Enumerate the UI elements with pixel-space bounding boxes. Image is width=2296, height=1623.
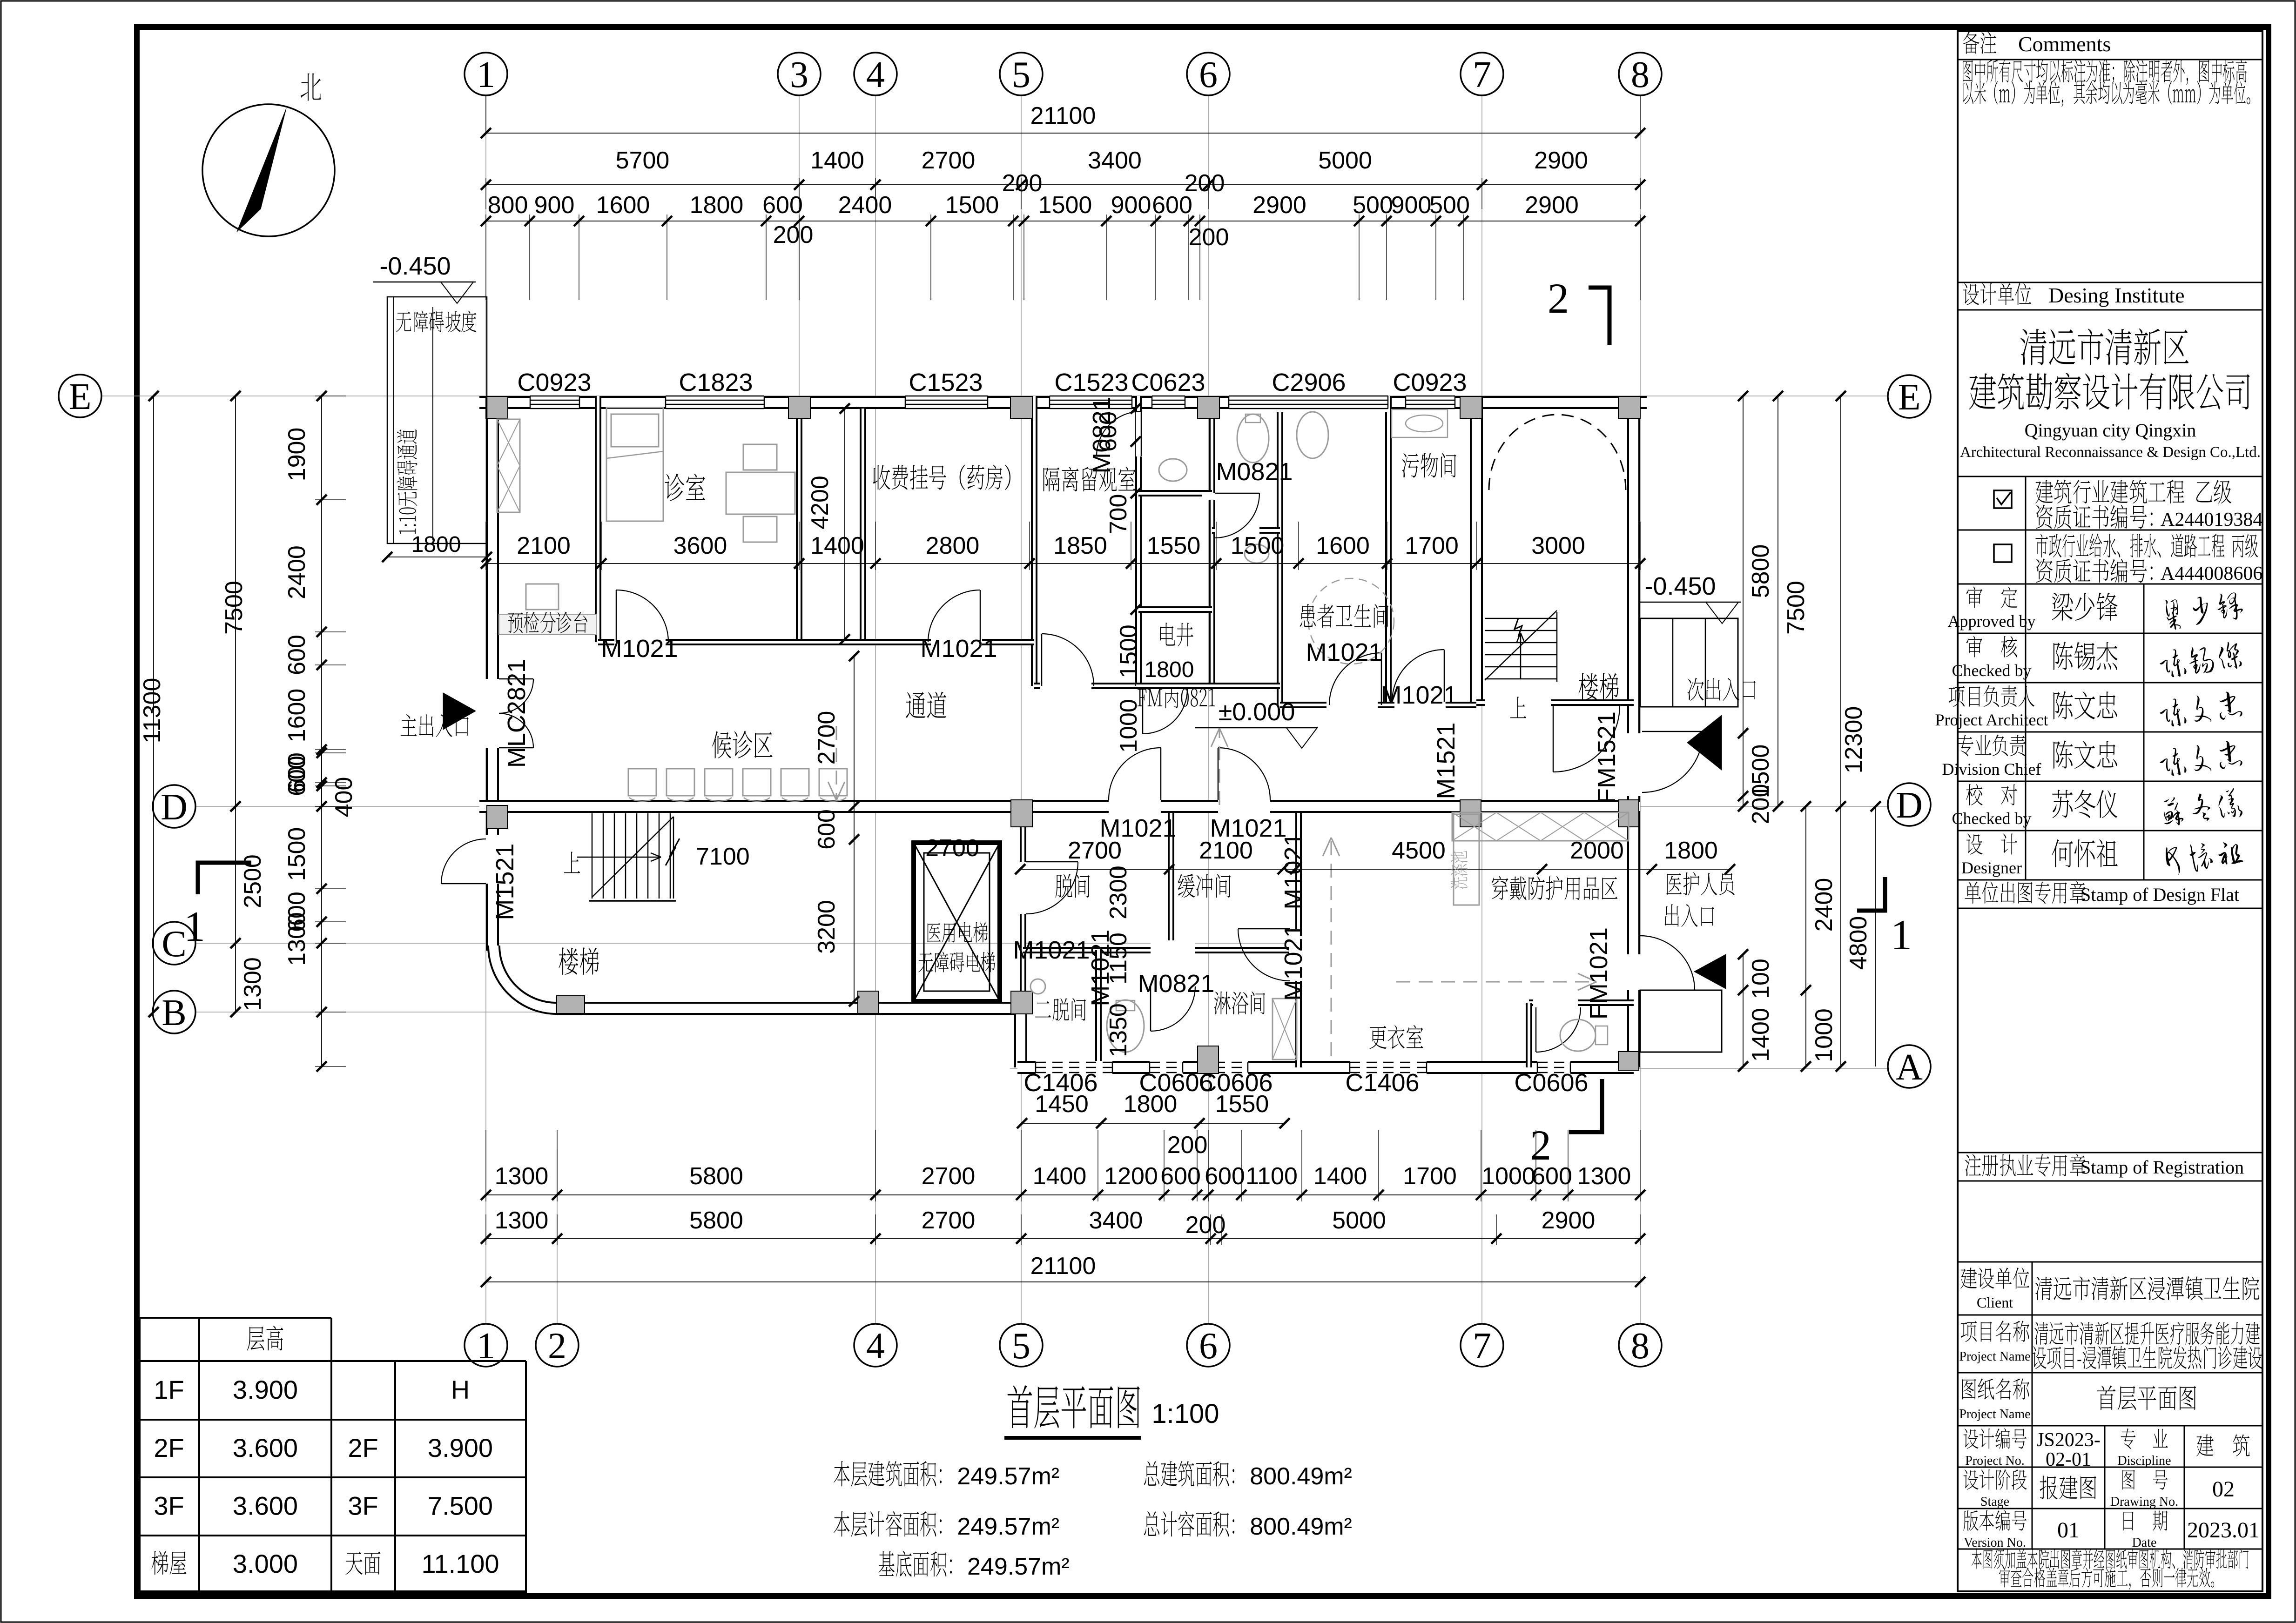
svg-text:1600: 1600 xyxy=(283,689,310,743)
svg-text:4500: 4500 xyxy=(1392,837,1446,864)
svg-text:3200: 3200 xyxy=(813,900,840,954)
svg-text:11300: 11300 xyxy=(139,678,166,744)
svg-text:1500: 1500 xyxy=(1115,624,1142,678)
svg-text:1000: 1000 xyxy=(1115,699,1142,753)
svg-text:M1521: M1521 xyxy=(1432,722,1460,799)
svg-text:100: 100 xyxy=(1747,959,1774,999)
svg-text:6: 6 xyxy=(1199,54,1218,95)
svg-text:12300: 12300 xyxy=(1840,706,1867,774)
svg-text:7500: 7500 xyxy=(1783,581,1810,635)
svg-text:600: 600 xyxy=(1205,1163,1245,1190)
svg-text:5800: 5800 xyxy=(689,1207,743,1234)
svg-text:1000: 1000 xyxy=(1481,1163,1535,1190)
svg-text:800.49m²: 800.49m² xyxy=(1250,1513,1352,1540)
svg-text:1500: 1500 xyxy=(1038,192,1092,219)
svg-text:-0.450: -0.450 xyxy=(1644,572,1716,600)
svg-text:M1021: M1021 xyxy=(1306,638,1382,666)
svg-text:600: 600 xyxy=(813,809,840,850)
svg-text:M1021: M1021 xyxy=(1279,924,1307,1000)
svg-text:6: 6 xyxy=(1199,1326,1218,1367)
svg-text:JS2023-: JS2023- xyxy=(2036,1429,2101,1451)
svg-text:Project Name: Project Name xyxy=(1959,1349,2030,1364)
svg-text:Discipline: Discipline xyxy=(2117,1454,2171,1468)
svg-text:2: 2 xyxy=(1530,1121,1551,1169)
svg-text:M1021: M1021 xyxy=(1279,832,1307,909)
svg-text:3.600: 3.600 xyxy=(233,1491,298,1521)
svg-text:1800: 1800 xyxy=(690,192,744,219)
svg-text:1300: 1300 xyxy=(495,1207,549,1234)
svg-text:H: H xyxy=(451,1375,470,1404)
svg-text:1500: 1500 xyxy=(945,192,999,219)
svg-text:800.49m²: 800.49m² xyxy=(1250,1463,1352,1490)
svg-text:1: 1 xyxy=(184,903,205,950)
svg-text:1200: 1200 xyxy=(1104,1163,1158,1190)
svg-text:1700: 1700 xyxy=(1405,532,1459,559)
svg-text:M1021: M1021 xyxy=(920,635,997,663)
svg-text:Stage: Stage xyxy=(1980,1495,2009,1509)
svg-text:7.500: 7.500 xyxy=(428,1491,493,1521)
svg-text:600: 600 xyxy=(1160,1163,1201,1190)
svg-text:21100: 21100 xyxy=(1030,1253,1096,1280)
svg-text:5800: 5800 xyxy=(1747,544,1774,598)
svg-text:2023.01: 2023.01 xyxy=(2187,1518,2260,1543)
svg-text:5700: 5700 xyxy=(616,147,670,174)
svg-text:1400: 1400 xyxy=(1747,1008,1774,1062)
svg-text:02: 02 xyxy=(2212,1477,2235,1502)
svg-text:4800: 4800 xyxy=(1845,916,1872,970)
svg-text:2700: 2700 xyxy=(922,147,976,174)
svg-text:1000: 1000 xyxy=(1811,1008,1838,1062)
svg-text:M1021: M1021 xyxy=(1380,681,1457,709)
svg-text:200: 200 xyxy=(773,221,814,248)
svg-text:1400: 1400 xyxy=(1033,1163,1087,1190)
svg-text:3400: 3400 xyxy=(1088,147,1142,174)
svg-text:1800: 1800 xyxy=(1145,657,1194,682)
svg-text:A244019384: A244019384 xyxy=(2161,509,2262,530)
svg-text:M1021: M1021 xyxy=(1099,814,1176,842)
svg-text:FM1021: FM1021 xyxy=(1585,927,1613,1019)
svg-text:2F: 2F xyxy=(154,1433,184,1462)
svg-text:M1021: M1021 xyxy=(1086,929,1114,1006)
svg-text:1800: 1800 xyxy=(1664,837,1718,864)
svg-text:Stamp of Design Flat: Stamp of Design Flat xyxy=(2081,884,2239,905)
svg-text:1900: 1900 xyxy=(283,428,310,482)
svg-text:11.100: 11.100 xyxy=(421,1549,499,1578)
svg-text:M1021: M1021 xyxy=(1210,814,1286,842)
svg-text:2900: 2900 xyxy=(1252,192,1306,219)
svg-text:700: 700 xyxy=(1105,494,1132,535)
svg-text:Version No.: Version No. xyxy=(1964,1536,2026,1550)
svg-text:1100: 1100 xyxy=(1246,1163,1298,1190)
svg-text:A444008606: A444008606 xyxy=(2161,563,2262,584)
svg-text:2: 2 xyxy=(1548,275,1569,322)
svg-text:3.600: 3.600 xyxy=(233,1433,298,1462)
svg-text:Division Chief: Division Chief xyxy=(1942,760,2041,778)
svg-text:E: E xyxy=(1898,377,1921,418)
svg-text:M1021: M1021 xyxy=(1013,936,1090,964)
svg-text:FM1521: FM1521 xyxy=(1593,711,1621,804)
svg-text:1300: 1300 xyxy=(239,957,266,1011)
svg-text:2100: 2100 xyxy=(517,532,571,559)
svg-text:01: 01 xyxy=(2057,1518,2080,1543)
svg-text:C0623: C0623 xyxy=(1131,369,1205,396)
svg-text:4200: 4200 xyxy=(807,476,834,530)
svg-text:B: B xyxy=(162,993,186,1033)
svg-text:D: D xyxy=(161,787,188,828)
svg-text:3000: 3000 xyxy=(1531,532,1585,559)
svg-text:3.000: 3.000 xyxy=(233,1549,298,1578)
svg-text:Checked by: Checked by xyxy=(1952,809,2032,828)
svg-text:2700: 2700 xyxy=(922,1207,976,1234)
svg-text:Date: Date xyxy=(2132,1536,2157,1550)
svg-text:Comments: Comments xyxy=(2018,32,2111,56)
svg-text:1350: 1350 xyxy=(1105,1003,1132,1057)
svg-text:2400: 2400 xyxy=(838,192,892,219)
svg-text:1500: 1500 xyxy=(1231,532,1285,559)
svg-text:900: 900 xyxy=(1111,192,1151,219)
svg-text:1300: 1300 xyxy=(1577,1163,1631,1190)
svg-text:2400: 2400 xyxy=(283,545,310,599)
svg-text:-0.450: -0.450 xyxy=(379,252,451,280)
svg-text:600: 600 xyxy=(762,192,803,219)
svg-text:C1406: C1406 xyxy=(1023,1069,1098,1097)
svg-text:1: 1 xyxy=(477,54,495,95)
svg-text:1800: 1800 xyxy=(411,532,461,557)
svg-text:MLC2821: MLC2821 xyxy=(503,659,531,768)
svg-text:5000: 5000 xyxy=(1318,147,1372,174)
svg-text:Stamp of Registration: Stamp of Registration xyxy=(2081,1157,2244,1178)
svg-text:M1521: M1521 xyxy=(491,843,519,920)
svg-text:Project No.: Project No. xyxy=(1965,1454,2025,1468)
svg-text:Project Name: Project Name xyxy=(1959,1407,2030,1422)
svg-text:1:100: 1:100 xyxy=(1151,1399,1219,1429)
svg-text:1: 1 xyxy=(1891,911,1912,959)
svg-text:Desing Institute: Desing Institute xyxy=(2048,283,2185,307)
svg-text:8: 8 xyxy=(1631,54,1650,95)
svg-text:C1523: C1523 xyxy=(909,369,983,396)
svg-text:7500: 7500 xyxy=(221,581,248,635)
svg-text:Designer: Designer xyxy=(1961,858,2022,877)
svg-text:Qingyuan city Qingxin: Qingyuan city Qingxin xyxy=(2025,420,2196,441)
svg-text:2: 2 xyxy=(548,1326,566,1367)
svg-text:5: 5 xyxy=(1012,1326,1030,1367)
svg-text:2700: 2700 xyxy=(922,1163,976,1190)
svg-text:C0606: C0606 xyxy=(1514,1069,1588,1097)
svg-text:M0821: M0821 xyxy=(1138,970,1214,998)
svg-text:±0.000: ±0.000 xyxy=(1219,698,1295,726)
svg-text:900: 900 xyxy=(1391,192,1432,219)
svg-text:C: C xyxy=(162,924,186,965)
svg-text:5800: 5800 xyxy=(689,1163,743,1190)
svg-text:2300: 2300 xyxy=(1105,865,1132,919)
svg-text:1300: 1300 xyxy=(283,912,310,966)
svg-text:8: 8 xyxy=(1631,1326,1650,1367)
svg-text:2900: 2900 xyxy=(1534,147,1588,174)
svg-text:A: A xyxy=(1896,1047,1923,1088)
svg-text:C2906: C2906 xyxy=(1272,369,1346,396)
svg-text:3.900: 3.900 xyxy=(428,1433,493,1462)
svg-text:3F: 3F xyxy=(154,1491,184,1521)
svg-text:1850: 1850 xyxy=(1053,532,1107,559)
svg-text:1300: 1300 xyxy=(495,1163,549,1190)
svg-text:4: 4 xyxy=(866,1326,885,1367)
svg-text:Project Architect: Project Architect xyxy=(1935,711,2048,729)
svg-text:7: 7 xyxy=(1473,54,1491,95)
svg-text:1600: 1600 xyxy=(1316,532,1370,559)
svg-text:Approved by: Approved by xyxy=(1948,612,2036,630)
svg-text:Client: Client xyxy=(1977,1294,2013,1311)
svg-text:7: 7 xyxy=(1473,1326,1491,1367)
svg-text:1F: 1F xyxy=(154,1375,184,1404)
svg-text:900: 900 xyxy=(534,192,575,219)
svg-text:3F: 3F xyxy=(348,1491,378,1521)
svg-text:5000: 5000 xyxy=(1332,1207,1386,1234)
svg-text:500: 500 xyxy=(1429,192,1470,219)
svg-text:2000: 2000 xyxy=(1570,837,1624,864)
svg-text:1400: 1400 xyxy=(810,532,864,559)
svg-text:2700: 2700 xyxy=(925,835,979,862)
svg-text:C1823: C1823 xyxy=(679,369,753,396)
svg-text:C1406: C1406 xyxy=(1345,1069,1419,1097)
svg-text:M0821: M0821 xyxy=(1088,396,1116,473)
svg-text:02-01: 02-01 xyxy=(2046,1449,2091,1470)
svg-text:1500: 1500 xyxy=(283,827,310,881)
svg-text:E: E xyxy=(69,376,92,417)
svg-text:2800: 2800 xyxy=(926,532,980,559)
svg-text:1400: 1400 xyxy=(1313,1163,1367,1190)
svg-text:21100: 21100 xyxy=(1030,102,1096,129)
svg-text:3600: 3600 xyxy=(673,532,727,559)
svg-text:7100: 7100 xyxy=(696,843,750,870)
svg-text:200: 200 xyxy=(1185,1212,1226,1239)
svg-text:249.57m²: 249.57m² xyxy=(957,1463,1059,1490)
svg-text:C0923: C0923 xyxy=(1393,369,1467,396)
svg-text:Architectural Reconnaissance &: Architectural Reconnaissance & Design Co… xyxy=(1960,444,2261,461)
svg-text:1400: 1400 xyxy=(810,147,864,174)
svg-text:3: 3 xyxy=(790,54,808,95)
svg-text:200: 200 xyxy=(1189,224,1229,251)
svg-text:C0606: C0606 xyxy=(1198,1069,1273,1097)
svg-text:Drawing No.: Drawing No. xyxy=(2110,1495,2178,1509)
svg-text:2700: 2700 xyxy=(813,711,840,765)
svg-text:1700: 1700 xyxy=(1403,1163,1457,1190)
svg-text:Checked by: Checked by xyxy=(1952,661,2032,680)
svg-text:2400: 2400 xyxy=(1811,878,1838,932)
svg-text:M1021: M1021 xyxy=(601,635,678,663)
svg-text:500: 500 xyxy=(1353,192,1393,219)
svg-text:2900: 2900 xyxy=(1525,192,1579,219)
svg-text:200: 200 xyxy=(1185,170,1225,197)
svg-text:2F: 2F xyxy=(348,1433,378,1462)
svg-text:M0821: M0821 xyxy=(1216,458,1293,486)
svg-text:1550: 1550 xyxy=(1147,532,1201,559)
svg-text:3.900: 3.900 xyxy=(233,1375,298,1404)
svg-text:600: 600 xyxy=(283,752,310,793)
svg-text:2900: 2900 xyxy=(1542,1207,1596,1234)
svg-text:C0923: C0923 xyxy=(517,369,591,396)
svg-text:3400: 3400 xyxy=(1089,1207,1143,1234)
svg-text:249.57m²: 249.57m² xyxy=(957,1513,1059,1540)
svg-text:D: D xyxy=(1896,785,1923,826)
svg-text:1600: 1600 xyxy=(596,192,650,219)
svg-text:C1523: C1523 xyxy=(1054,369,1128,396)
svg-text:5: 5 xyxy=(1012,54,1030,95)
svg-text:4: 4 xyxy=(866,54,885,95)
svg-text:800: 800 xyxy=(488,192,528,219)
svg-text:249.57m²: 249.57m² xyxy=(967,1553,1070,1580)
svg-text:600: 600 xyxy=(283,635,310,675)
svg-text:200: 200 xyxy=(1747,784,1774,825)
svg-text:200: 200 xyxy=(1167,1132,1208,1159)
svg-text:200: 200 xyxy=(1002,170,1043,197)
